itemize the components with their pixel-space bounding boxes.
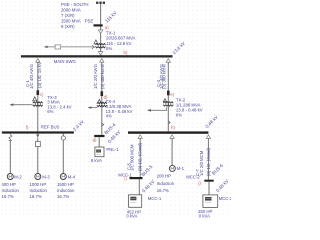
utility PSE-SOUTH symbol: [96, 2, 105, 4]
svg-text:M-3: M-3: [42, 175, 50, 180]
svg-text:8 kVA: 8 kVA: [91, 158, 102, 163]
svg-text:M-4: M-4: [68, 175, 76, 180]
feeder M-1 connector triangle: [170, 135, 174, 139]
transformer TX-3 windings: [33, 102, 43, 104]
feeder C-4 connector triangle: [166, 59, 170, 63]
TX-1 neutral grounding resistor wire: [44, 46, 92, 48]
svg-text:MAIN SWG: MAIN SWG: [54, 59, 77, 64]
wire bar to MCC-1 box: [138, 179, 140, 195]
bus MAIN SWG: [21, 55, 173, 57]
transformer TX-4 windings: [97, 102, 107, 104]
svg-text:MCC-1: MCC-1: [148, 196, 162, 201]
svg-text:2000 MVA: 2000 MVA: [61, 8, 81, 13]
ground arrow: [147, 109, 151, 112]
feeder C-7 connector triangle: [206, 135, 210, 139]
svg-text:M-2: M-2: [14, 175, 22, 180]
transformer TX-1 delta symbol: [94, 40, 98, 44]
svg-text:1500 MVA: 1500 MVA: [61, 19, 81, 24]
svg-text:1/C 500 MCM: 1/C 500 MCM: [130, 144, 135, 171]
svg-text:(3) 1/2, (Cond): (3) 1/2, (Cond): [206, 147, 211, 176]
cable C-1 wire: [37, 62, 39, 131]
drawout chevron: [168, 121, 170, 124]
transformer TX-4 delta symbol: [98, 99, 102, 102]
transformer TX-2 delta symbol: [163, 99, 166, 102]
TX-4 text block: [106, 99, 133, 118]
svg-text:200 HP: 200 HP: [157, 174, 171, 179]
TX-1 text block: [106, 30, 135, 51]
svg-text:Induction: Induction: [2, 188, 20, 193]
breaker on C-4: [167, 91, 170, 96]
svg-text:e): e): [170, 92, 174, 97]
svg-text:16.7%: 16.7%: [57, 194, 69, 199]
svg-text:7 (X/R): 7 (X/R): [61, 13, 75, 18]
wire to M-2: [9, 140, 11, 173]
MCC-2 box: [203, 195, 218, 208]
bus REF BUS (2.4 kV): [2, 131, 74, 133]
svg-text:b): b): [124, 50, 128, 55]
wire PSE bus to TX-1: [100, 27, 102, 56]
svg-text:1/C 4/0 AWG: 1/C 4/0 AWG: [29, 63, 34, 89]
svg-text:1/C 2/0 MCM: 1/C 2/0 MCM: [199, 150, 204, 176]
transformer TX-2 windings: [163, 102, 173, 104]
bus BUS-4 (0.48 kV panel bus): [94, 135, 104, 137]
wire to M-1: [171, 138, 173, 165]
svg-text:1000 HP: 1000 HP: [30, 182, 47, 187]
drawout chevron: [102, 123, 104, 126]
svg-text:Induction: Induction: [57, 188, 75, 193]
svg-text:0 kVA: 0 kVA: [199, 214, 210, 218]
svg-text:Induction: Induction: [157, 181, 175, 186]
svg-text:(3) 300 kcmil: (3) 300 kcmil: [162, 64, 167, 89]
motor M-3 fuse box: [36, 142, 41, 147]
TX-2 text block: [176, 97, 203, 117]
bus MCC (0.48 kV): [128, 131, 208, 133]
motor M-4: [60, 174, 66, 180]
feeder C-2 connector triangle: [100, 59, 104, 63]
svg-text:(3) 1/2, (Cond): (3) 1/2, (Cond): [138, 142, 143, 171]
cable C-4 wire: [167, 62, 169, 131]
MCC-1 box: [129, 195, 142, 208]
svg-text:a): a): [105, 25, 109, 30]
svg-text:16.7%: 16.7%: [2, 194, 14, 199]
motor M-4 drawout contact: [62, 134, 64, 136]
feeder C-1 connector triangle: [36, 59, 40, 63]
bus MCC-1 bar: [130, 177, 143, 179]
TX-3 secondary ground arrow: [37, 134, 39, 135]
svg-text:16.7%: 16.7%: [157, 188, 169, 193]
transformer TX-3 delta symbol: [33, 97, 37, 101]
utility text block: [61, 2, 88, 29]
svg-text:TX-1: TX-1: [106, 30, 116, 35]
svg-text:c): c): [40, 92, 44, 97]
breaker on C-2: [101, 91, 104, 96]
motor M-1: [169, 165, 175, 171]
transformer TX-1 wye symbol: [92, 45, 96, 49]
feeder C-5 connector triangle: [138, 135, 142, 139]
transformer TX-1 windings: [96, 43, 106, 45]
cable C-7 wire: [207, 138, 209, 179]
ground arrow: [44, 46, 48, 49]
svg-text:6%: 6%: [106, 46, 112, 51]
bus PSE (115 kV): [94, 24, 103, 26]
wire utility to PSE bus: [100, 4, 102, 24]
wire to M-3: [37, 138, 39, 142]
svg-text:PNL-1: PNL-1: [106, 147, 119, 152]
svg-text:1/C 2/0 AWG: 1/C 2/0 AWG: [93, 63, 98, 89]
svg-text:g): g): [93, 137, 97, 142]
ground arrow: [10, 103, 14, 106]
svg-text:0 kVA: 0 kVA: [126, 214, 137, 218]
TX-2 ground wire: [148, 107, 167, 110]
cable C-5 wire: [139, 138, 141, 177]
svg-text:PSE: PSE: [85, 19, 94, 24]
TX-3 text block: [47, 95, 71, 114]
TX-4 ground wire: [88, 107, 97, 109]
motor M-2 fuse: [9, 134, 12, 141]
motor M-3: [35, 174, 41, 180]
svg-text:h): h): [171, 125, 175, 130]
svg-text:400 HP: 400 HP: [2, 182, 16, 187]
svg-text:6%: 6%: [47, 109, 53, 114]
wire bar to MCC-2 box: [208, 182, 210, 195]
wire to M-4: [62, 140, 64, 173]
svg-text:16.7%: 16.7%: [30, 194, 42, 199]
bus MCC-2 bar: [204, 180, 213, 182]
panel PNL-1: [95, 147, 104, 157]
transformer TX-1 connector triangle (top): [98, 30, 103, 34]
svg-text:PSE - SOUTH: PSE - SOUTH: [61, 2, 88, 7]
svg-text:j): j): [197, 181, 201, 186]
TX-3 ground wire: [10, 104, 32, 106]
breaker on C-1: [37, 90, 40, 95]
cable C-2 wire: [101, 62, 103, 135]
svg-text:REF BUS: REF BUS: [41, 125, 60, 130]
svg-text:M-1: M-1: [177, 166, 185, 171]
TX-1 connector triangle (bottom): [98, 52, 103, 55]
svg-text:9 (X/R): 9 (X/R): [61, 24, 75, 29]
svg-text:Induction: Induction: [30, 188, 48, 193]
svg-text:MCC-2: MCC-2: [219, 196, 231, 201]
motor M-2: [7, 174, 13, 180]
svg-text:(3) 1/0, 15 kV: (3) 1/0, 15 kV: [37, 62, 42, 88]
wire bus to PNL-1: [98, 137, 100, 147]
resistor NGR: [55, 45, 61, 49]
svg-text:4%: 4%: [106, 113, 112, 118]
svg-text:(3) 400 kcmil: (3) 400 kcmil: [100, 64, 105, 89]
ground arrow: [88, 106, 92, 109]
svg-text:6%: 6%: [176, 112, 182, 117]
svg-text:1500 HP: 1500 HP: [57, 182, 74, 187]
